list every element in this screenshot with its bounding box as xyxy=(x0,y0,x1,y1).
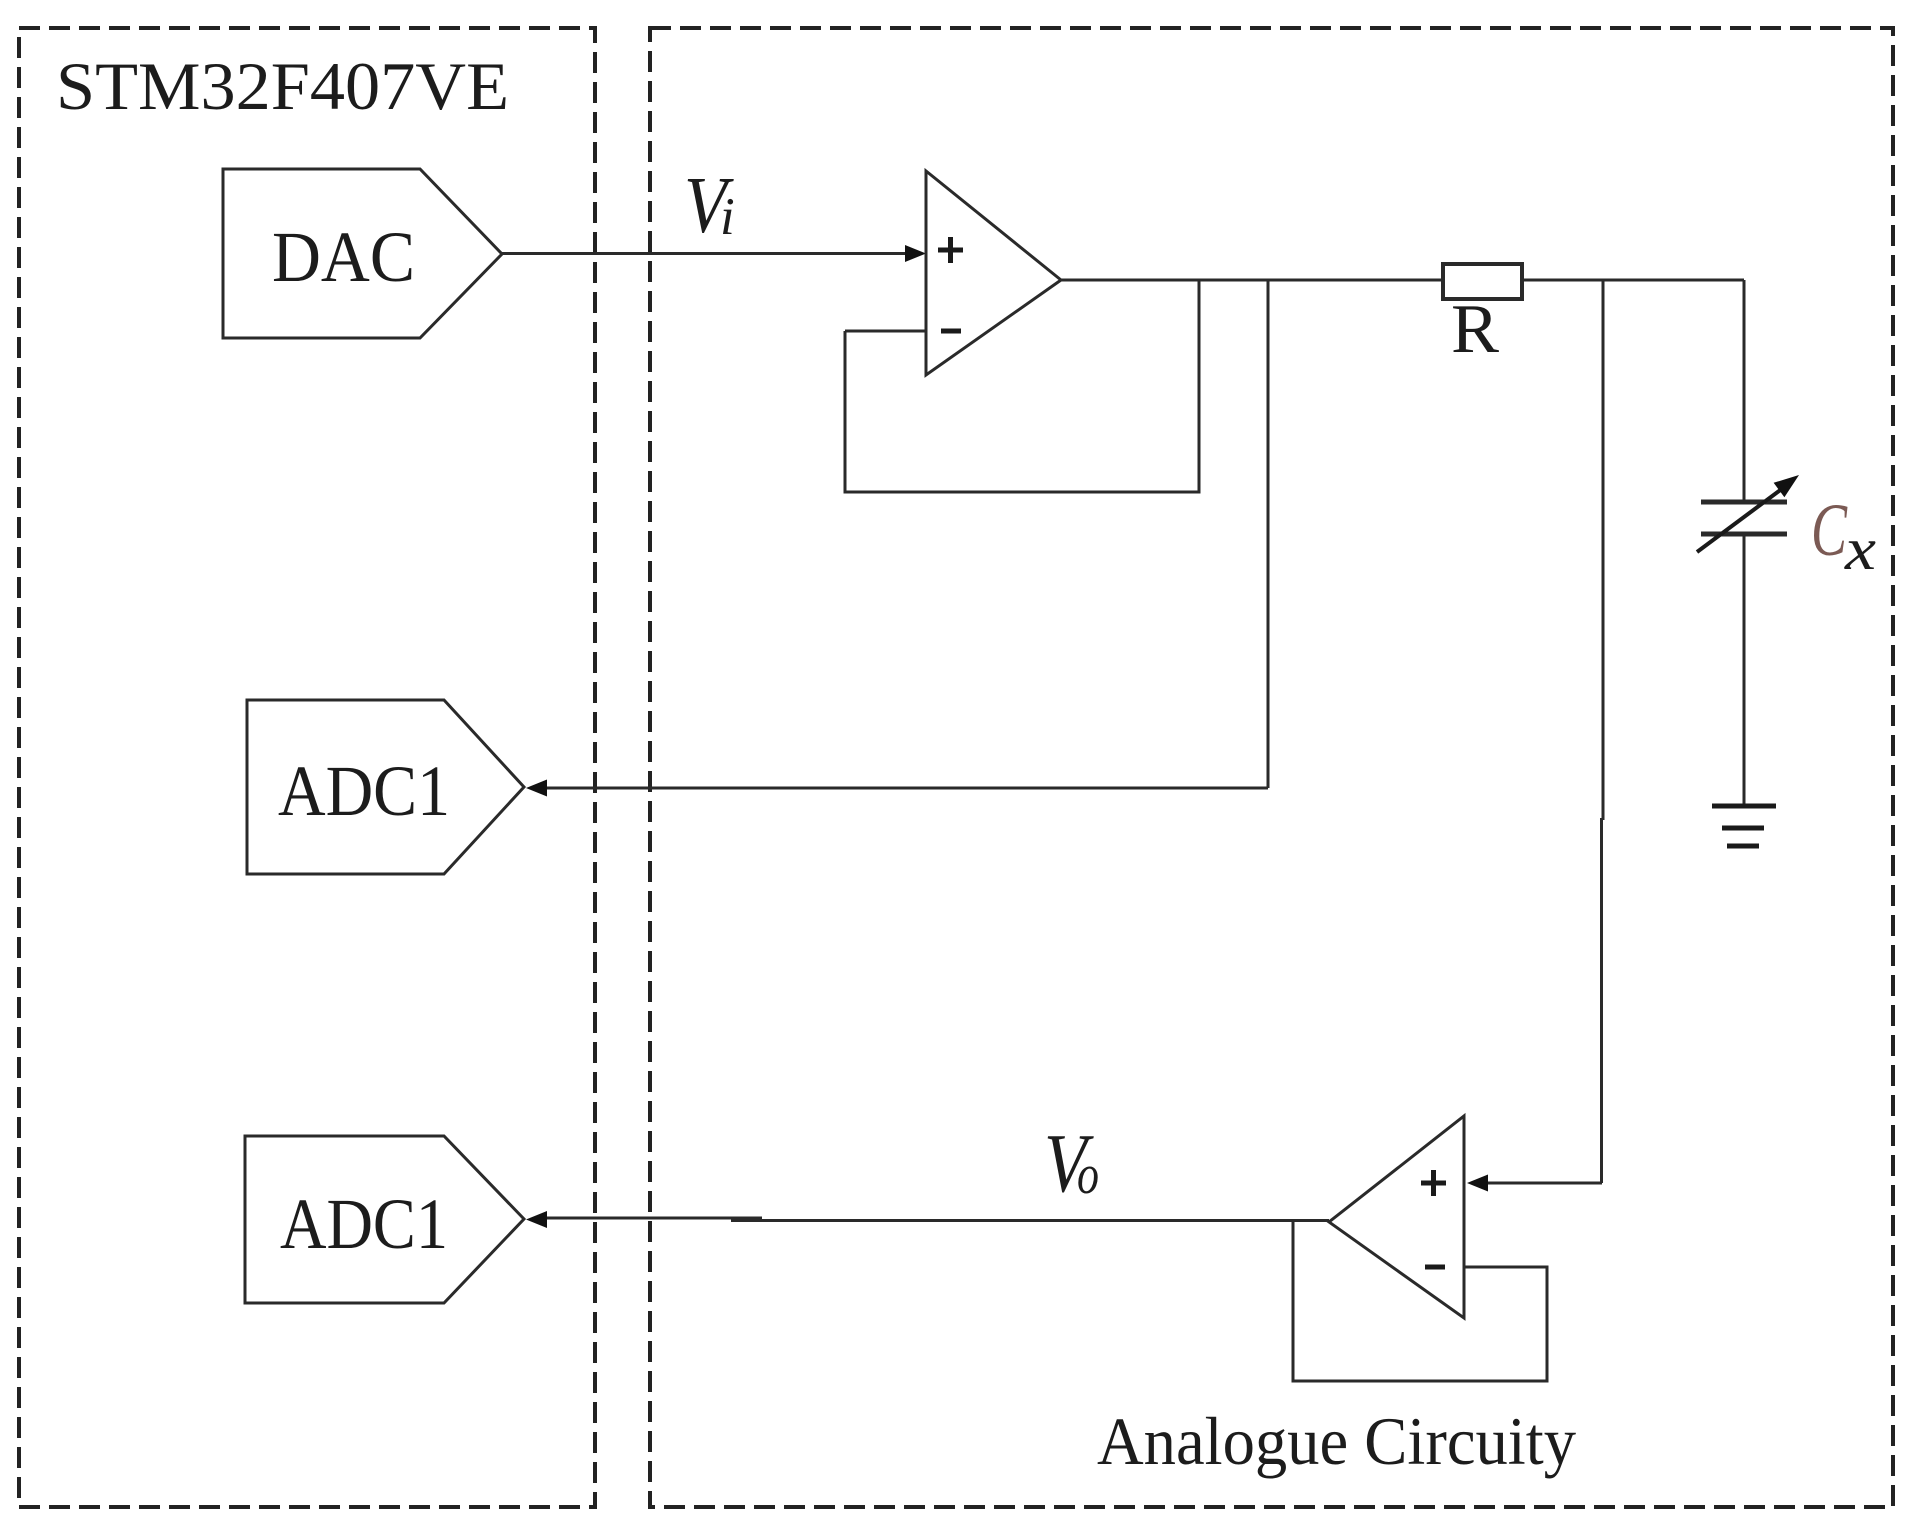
wire: U1 feedback loop xyxy=(845,280,1199,492)
ground xyxy=(1712,804,1776,809)
resistor R xyxy=(1443,264,1522,299)
wire: R output node down to op-amp U2 + input xyxy=(1602,280,1605,820)
capacitor Cx top wire xyxy=(1743,280,1746,502)
capacitor Cx variable arrow xyxy=(1697,488,1783,552)
wire: U2 feedback loop xyxy=(1293,1220,1547,1381)
wire: U1 inverting input xyxy=(845,330,926,333)
capacitor Cx bottom wire xyxy=(1743,534,1746,806)
svg-text:ADC1: ADC1 xyxy=(278,751,450,831)
svg-text:i: i xyxy=(720,188,735,246)
wire Vi: DAC output to op-amp U1 + input xyxy=(502,252,908,255)
svg-text:DAC: DAC xyxy=(272,217,415,297)
wire Vo: U2 output to ADC1 (bottom) xyxy=(731,1219,1329,1222)
svg-text:C: C xyxy=(1811,489,1848,572)
U1 plus input marker xyxy=(938,248,963,253)
STM32F407VE dashed box xyxy=(19,28,595,1507)
svg-text:o: o xyxy=(1077,1144,1099,1206)
wire: to op-amp U2 + input xyxy=(1485,1182,1602,1185)
capacitor Cx bottom plate xyxy=(1701,532,1787,537)
U1 minus input marker xyxy=(941,329,961,334)
Analogue Circuity dashed box xyxy=(650,28,1893,1507)
svg-text:ADC1: ADC1 xyxy=(280,1184,448,1264)
capacitor Cx top plate xyxy=(1701,500,1787,505)
svg-text:STM32F407VE: STM32F407VE xyxy=(56,48,509,124)
port DAC xyxy=(223,169,502,338)
wire: output node down to ADC1 wire xyxy=(1267,280,1270,788)
svg-text:R: R xyxy=(1451,291,1499,368)
port ADC1 (bottom) xyxy=(245,1136,524,1303)
svg-text:Analogue Circuity: Analogue Circuity xyxy=(1097,1403,1576,1479)
op-amp U2 xyxy=(1329,1116,1464,1318)
wire: U1 output horizontal to Cx branch xyxy=(1061,279,1744,282)
svg-text:x: x xyxy=(1844,516,1877,582)
wire: output node to ADC1 (middle) xyxy=(540,787,1268,790)
arrowhead into U1 + input xyxy=(905,245,926,262)
port ADC1 (middle) xyxy=(247,700,524,874)
U2 plus input marker xyxy=(1421,1181,1446,1186)
U2 minus input marker xyxy=(1425,1265,1445,1270)
op-amp U1 xyxy=(926,171,1061,375)
